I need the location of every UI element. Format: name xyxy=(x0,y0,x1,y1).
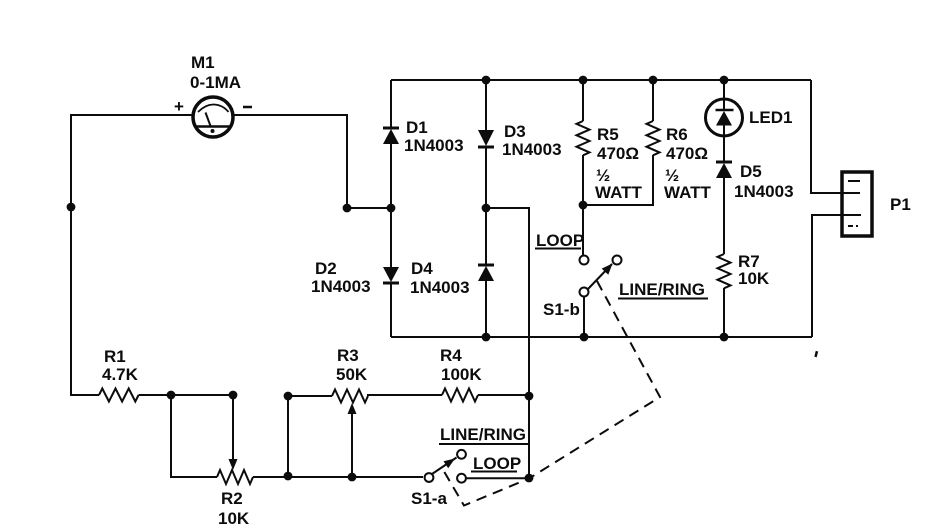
svg-text:4.7K: 4.7K xyxy=(102,365,139,384)
svg-text:10K: 10K xyxy=(218,509,250,528)
underline LINE/RING (S1-a) xyxy=(439,443,529,445)
svg-text:LOOP: LOOP xyxy=(473,454,521,473)
svg-text:R3: R3 xyxy=(337,346,359,365)
wire D4 branch xyxy=(485,208,487,337)
svg-text:R2: R2 xyxy=(221,489,243,508)
wire LED1 branch top xyxy=(723,80,725,98)
svg-text:D5: D5 xyxy=(740,162,762,181)
wire R4 right to S1 column xyxy=(478,394,529,396)
wire S1-a LOOP contact to S1 column xyxy=(466,477,529,479)
node D3 D4 junction xyxy=(482,204,491,213)
svg-text:D2: D2 xyxy=(315,259,337,278)
svg-text:S1-b: S1-b xyxy=(543,300,580,319)
node bottom bus S1-b xyxy=(580,333,589,342)
wire bottom bus xyxy=(391,336,812,338)
wire R3 to R4 xyxy=(368,395,442,396)
wire D2 branch xyxy=(390,208,392,337)
potentiometer R3 wiper arrow xyxy=(348,403,357,414)
svg-text:R4: R4 xyxy=(440,346,462,365)
LED LED1 xyxy=(706,99,743,136)
svg-text:LED1: LED1 xyxy=(749,108,792,127)
wire LED1 to D5 xyxy=(723,136,725,161)
svg-text:R5: R5 xyxy=(597,125,619,144)
underline LINE/RING (S1-b) xyxy=(618,298,708,300)
node bottom bus D4 xyxy=(482,333,491,342)
svg-text:M1: M1 xyxy=(191,53,215,72)
resistor R5 xyxy=(577,80,590,205)
svg-text:LINE/RING: LINE/RING xyxy=(619,280,705,299)
node S1 column bottom xyxy=(525,474,534,483)
svg-text:10K: 10K xyxy=(738,269,770,288)
switch S1-b arm with arrow xyxy=(588,264,613,290)
wire D3-D4 junction to S1 column xyxy=(486,208,529,478)
connector P1 contact line 4 xyxy=(848,225,858,227)
svg-text:470Ω: 470Ω xyxy=(666,144,708,163)
diode D3 xyxy=(478,130,494,147)
underline LOOP (S1-a) xyxy=(471,471,517,473)
svg-text:P1: P1 xyxy=(890,195,911,214)
switch S1-a LINE/RING contact xyxy=(457,450,466,459)
wire R5 junction to S1-b LOOP contact xyxy=(582,205,584,255)
connector P1 contact line 1 xyxy=(848,180,860,182)
node top bus D3 xyxy=(482,76,491,85)
wire node a down to bottom rail xyxy=(171,395,217,477)
dashed mechanical link S1-b to S1-a xyxy=(442,281,660,506)
wire P1 ring to bottom bus xyxy=(812,215,842,337)
svg-text:+: + xyxy=(174,97,184,116)
node top bus LED1 xyxy=(720,76,729,85)
node D1 D2 junction xyxy=(387,204,396,213)
svg-text:1N4003: 1N4003 xyxy=(311,277,371,296)
svg-text:LOOP: LOOP xyxy=(536,231,584,250)
svg-text:D3: D3 xyxy=(504,122,526,141)
node R3 bottom left xyxy=(284,472,293,481)
wire R3 top left to zigzag xyxy=(288,395,332,397)
wire R3 left leg xyxy=(287,396,289,476)
diode D2 xyxy=(383,267,399,283)
diode D1 xyxy=(383,128,399,144)
diode D4 xyxy=(478,265,494,281)
node top bus R5 xyxy=(579,76,588,85)
resistor R2 xyxy=(217,470,253,484)
svg-text:0-1MA: 0-1MA xyxy=(190,73,241,92)
svg-text:R1: R1 xyxy=(104,347,126,366)
svg-text:1N4003: 1N4003 xyxy=(404,136,464,155)
diode D5 xyxy=(716,162,732,178)
svg-text:1N4003: 1N4003 xyxy=(734,182,794,201)
underline LOOP (S1-b) xyxy=(535,248,581,250)
wire S1-b common to bottom bus xyxy=(583,296,585,337)
svg-text:LINE/RING: LINE/RING xyxy=(440,425,526,444)
resistor R6 xyxy=(583,80,660,205)
switch S1-b common contact xyxy=(580,288,589,297)
node R5 R6 bottom junction xyxy=(579,201,588,210)
resistor R4 xyxy=(442,389,478,402)
switch S1-a LOOP contact xyxy=(457,474,466,483)
svg-text:470Ω: 470Ω xyxy=(597,144,639,163)
svg-text:D1: D1 xyxy=(406,118,428,137)
node R4 S1 column xyxy=(525,392,534,401)
switch S1-b LOOP contact xyxy=(580,256,589,265)
svg-text:R6: R6 xyxy=(666,125,688,144)
svg-text:WATT: WATT xyxy=(595,183,643,202)
svg-text:WATT: WATT xyxy=(664,183,712,202)
wire wiper feed down to R2 arrow xyxy=(232,395,234,462)
node meter wire corner xyxy=(343,204,352,213)
wire D3 branch xyxy=(485,80,487,208)
potentiometer R2 wiper arrow xyxy=(229,459,238,470)
svg-text:1N4003: 1N4003 xyxy=(502,140,562,159)
wire meter right to bridge mid-rail xyxy=(233,115,391,208)
svg-text:1N4003: 1N4003 xyxy=(410,278,470,297)
node R3 top left xyxy=(284,392,293,401)
stray mark xyxy=(814,351,818,357)
connector P1 contact line 2 xyxy=(842,192,860,194)
node R3 wiper bottom xyxy=(348,473,357,482)
switch S1-a common contact xyxy=(425,473,434,482)
wire D5 to R7 xyxy=(723,178,725,254)
wire D1 branch xyxy=(390,80,392,208)
svg-text:50K: 50K xyxy=(336,365,368,384)
wire top bus to P1 tip xyxy=(811,80,842,193)
svg-text:D4: D4 xyxy=(411,259,433,278)
node top bus R6 xyxy=(649,76,658,85)
node R1 right a xyxy=(167,391,176,400)
svg-text:100K: 100K xyxy=(441,365,482,384)
resistor R3 xyxy=(332,390,368,403)
resistor R7 xyxy=(718,254,731,337)
switch S1-b LINE/RING contact xyxy=(613,256,622,265)
resistor R1 xyxy=(99,389,237,402)
meter M1 xyxy=(193,97,233,137)
node left rail xyxy=(67,203,76,212)
connector P1 contact line 3 xyxy=(842,214,861,216)
switch S1-a arm with arrow xyxy=(432,458,457,475)
wire bottom rail R2 to S1-a xyxy=(253,476,423,478)
node R1 right b wiper feed xyxy=(229,391,238,400)
svg-text:S1-a: S1-a xyxy=(411,489,447,508)
node bottom bus R7 xyxy=(720,333,729,342)
connector P1 body xyxy=(842,172,872,236)
wire top bus xyxy=(391,79,811,81)
wire left loop from meter to R1 xyxy=(71,115,193,395)
wire R3 wiper down xyxy=(351,413,353,477)
label meter minus xyxy=(243,106,252,109)
